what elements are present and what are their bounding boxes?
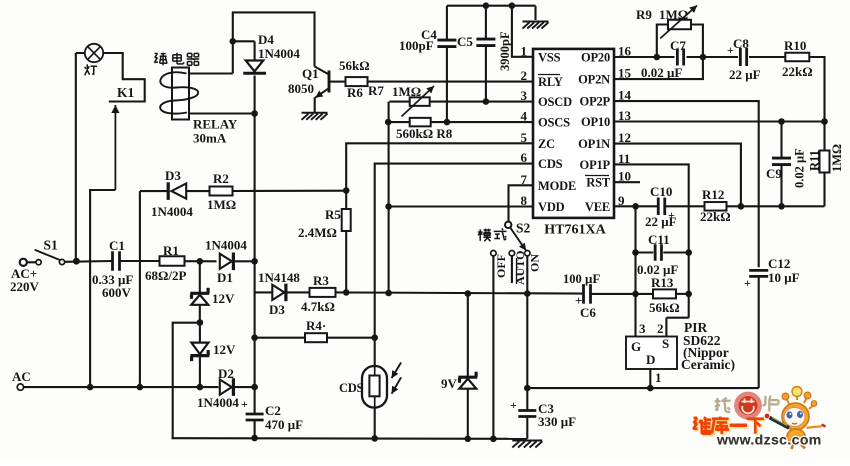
svg-text:12V: 12V: [213, 342, 236, 357]
svg-text:600V: 600V: [102, 285, 132, 300]
svg-text:C7: C7: [670, 38, 686, 53]
svg-text:0.02 μF: 0.02 μF: [637, 262, 678, 277]
wire AC neutral: [24, 384, 219, 391]
svg-text:2: 2: [657, 321, 664, 336]
svg-text:MODE: MODE: [538, 179, 576, 193]
svg-text:R1: R1: [163, 243, 179, 258]
diode D3zc 1N4004: [140, 168, 210, 219]
svg-text:OP1N: OP1N: [578, 137, 610, 151]
wire K1 arrow to AC neutral: [90, 190, 115, 387]
wire Q1 base to R6: [330, 81, 346, 83]
wire R13 right: [676, 291, 692, 298]
wire ON down to C3: [526, 294, 528, 410]
resistor R13 56k: [649, 275, 680, 315]
node C4 bottom on pin4: [444, 119, 451, 126]
node VDD/ON: [524, 290, 531, 297]
svg-text:R10: R10: [784, 38, 806, 53]
svg-text:+: +: [510, 398, 517, 412]
svg-text:1N4004: 1N4004: [258, 46, 300, 61]
svg-text:22kΩ: 22kΩ: [700, 209, 731, 224]
capacitor C3 330uF: [510, 398, 576, 439]
svg-text:S1: S1: [44, 238, 59, 253]
svg-text:1: 1: [655, 370, 662, 385]
svg-text:C8: C8: [733, 36, 749, 51]
ground bottom: [512, 441, 542, 448]
S2 contact OFF: [491, 251, 508, 439]
node C11 right: [685, 249, 692, 256]
svg-text:D3: D3: [269, 302, 285, 317]
svg-text:30mA: 30mA: [193, 131, 227, 146]
svg-text:ON: ON: [528, 254, 542, 272]
wire zener mid to bottom rail: [173, 323, 200, 439]
svg-text:HT761XA: HT761XA: [544, 223, 606, 238]
svg-text:330 μF: 330 μF: [538, 414, 576, 429]
wire VDD rail: [336, 292, 584, 293]
svg-text:OFF: OFF: [494, 254, 508, 278]
wire pin16 OP20: [614, 54, 660, 61]
resistor R8 560k: [388, 118, 533, 141]
capacitor C10 22uF: [645, 184, 677, 229]
svg-text:VDD: VDD: [538, 200, 565, 214]
svg-text:CDS: CDS: [339, 381, 363, 395]
svg-text:OP2N: OP2N: [578, 73, 610, 87]
wire lamp right to K1 contact: [103, 53, 145, 102]
node C5 bottom on pin3: [483, 98, 490, 105]
ground top-right: [523, 6, 549, 29]
svg-text:470 μF: 470 μF: [265, 417, 303, 432]
wire R2 to ZC node: [233, 190, 347, 192]
svg-text:0.02 μF: 0.02 μF: [793, 148, 807, 188]
wire D1-D2 rail: [254, 261, 256, 387]
capacitor C5 3900pF: [457, 6, 512, 102]
wire pin12 OP1N: [614, 144, 741, 207]
svg-text:R6: R6: [347, 85, 363, 100]
svg-text:8050: 8050: [288, 81, 314, 96]
svg-text:10 μF: 10 μF: [768, 270, 800, 285]
svg-text:R9: R9: [636, 7, 652, 22]
resistor R11 1M: [808, 122, 845, 207]
capacitor C7 0.02uF: [641, 38, 706, 80]
svg-text:0.02 μF: 0.02 μF: [641, 65, 682, 80]
capacitor C9 0.02uF: [766, 122, 807, 207]
wire pin11 OP1P: [614, 164, 689, 317]
svg-text:68Ω/2P: 68Ω/2P: [145, 268, 187, 283]
svg-text:D: D: [646, 352, 655, 367]
zener DZ1 12V: [190, 261, 235, 326]
wire relay bottom to rail: [189, 110, 258, 117]
resistor R1 68ohm: [145, 243, 187, 283]
wire PIR ground net: [524, 385, 759, 392]
svg-text:1MΩ: 1MΩ: [392, 84, 421, 99]
svg-text:2.4MΩ: 2.4MΩ: [298, 225, 337, 240]
svg-text:K1: K1: [117, 85, 135, 100]
node C5 top: [483, 2, 490, 9]
svg-text:S2: S2: [516, 221, 531, 236]
svg-text:www.dzsc.com: www.dzsc.com: [716, 432, 822, 448]
resistor R3 4.7k: [301, 273, 336, 314]
svg-text:R13: R13: [651, 275, 674, 290]
wire C11 left rail: [632, 206, 639, 336]
S2 contact ON: [525, 251, 542, 294]
wire bottom rail: [172, 435, 528, 442]
svg-text:RELAY: RELAY: [193, 117, 238, 132]
capacitor C11 0.02uF: [636, 232, 689, 277]
svg-text:C11: C11: [648, 232, 670, 247]
svg-text:3900pF: 3900pF: [498, 31, 512, 71]
svg-text:AC: AC: [12, 369, 31, 384]
svg-text:1N4148: 1N4148: [258, 270, 300, 285]
svg-text:ZC: ZC: [538, 137, 555, 151]
node VDD/R5: [343, 289, 350, 296]
node VDD/R7R8 rail: [385, 290, 392, 297]
wire R7R8 rail to VDD: [385, 203, 392, 293]
svg-text:OSCD: OSCD: [538, 95, 572, 109]
svg-text:D1: D1: [217, 270, 233, 285]
photoresistor CDS: [339, 363, 401, 408]
svg-text:G: G: [631, 339, 641, 354]
capacitor C6 100uF: [563, 271, 600, 320]
wire D3zc to AC neutral: [139, 191, 141, 387]
terminal AC neutral: [12, 369, 31, 390]
capacitor C1 0.33uF/600V: [92, 238, 133, 300]
wire R7/R8 left rail: [388, 102, 390, 207]
wire top-left rail: [233, 12, 315, 73]
wire pin7 MODE to S2: [509, 185, 534, 221]
svg-text:RLY: RLY: [538, 75, 563, 89]
resistor R6 56k: [339, 58, 370, 100]
zener DZ2 12V: [190, 323, 236, 391]
svg-text:C12: C12: [768, 256, 790, 271]
wire R1 to D1: [185, 258, 217, 265]
svg-text:D3: D3: [165, 168, 181, 183]
wire C6 to C11 rail: [591, 293, 653, 295]
wire CDS to bottom rail: [371, 408, 378, 442]
svg-text:3: 3: [521, 88, 528, 103]
resistor R4: [251, 318, 378, 342]
wire R12 right to C9/R11: [727, 203, 825, 210]
svg-text:R7: R7: [368, 83, 384, 98]
wire lamp left to S1 node: [76, 53, 85, 261]
diode D1 1N4004: [205, 238, 258, 286]
svg-text:56kΩ: 56kΩ: [339, 58, 370, 73]
node D4 top junction: [230, 38, 237, 45]
wire C10 to R12: [665, 205, 705, 207]
terminal AC+ and switch S1: [10, 238, 65, 295]
op-amp IC U1 HT761XA: [521, 43, 632, 237]
svg-text:R4·: R4·: [306, 318, 326, 333]
svg-text:Ceramic): Ceramic): [681, 357, 735, 372]
wire pin5 ZC: [346, 143, 533, 190]
svg-text:220V: 220V: [10, 279, 40, 294]
svg-text:S: S: [662, 336, 669, 351]
svg-text:C6: C6: [580, 305, 596, 320]
svg-text:D4: D4: [258, 32, 274, 47]
wire pin1 VSS: [512, 6, 533, 57]
svg-text:+: +: [744, 276, 751, 290]
wire pin6 CDS: [375, 164, 533, 366]
svg-text:1MΩ: 1MΩ: [830, 144, 844, 172]
relay contact K1 arrow: [111, 85, 134, 190]
potentiometer R9 1M: [636, 6, 703, 58]
svg-text:VEE: VEE: [585, 200, 610, 214]
svg-text:Q1: Q1: [302, 66, 319, 81]
svg-text:OSCS: OSCS: [538, 116, 570, 130]
lamp symbol (灯): [85, 44, 104, 76]
svg-text:56kΩ: 56kΩ: [649, 300, 680, 315]
switch S2 (模式): [478, 221, 531, 251]
node pin1 top: [509, 2, 516, 9]
svg-text:OP10: OP10: [581, 115, 610, 129]
node R8 left: [385, 119, 392, 126]
svg-text:OP2P: OP2P: [580, 95, 611, 109]
wire pin13 OP10: [614, 118, 828, 125]
svg-text:C10: C10: [650, 184, 672, 199]
svg-text:560kΩ R8: 560kΩ R8: [396, 126, 453, 141]
svg-text:22kΩ: 22kΩ: [782, 64, 813, 79]
pin10 RST stub: [614, 181, 640, 183]
potentiometer R7 1M: [389, 84, 533, 117]
svg-text:22 μF: 22 μF: [729, 67, 761, 82]
svg-text:1MΩ: 1MΩ: [207, 197, 236, 212]
svg-text:+: +: [241, 397, 248, 411]
svg-text:OP1P: OP1P: [580, 158, 611, 172]
wire pin15 OP2N: [614, 57, 703, 79]
svg-text:D2: D2: [218, 366, 234, 381]
resistor R10 22k: [782, 38, 813, 79]
resistor R2 1M: [207, 171, 236, 212]
wire pin8 VDD: [389, 205, 533, 207]
S2 contact AUTO: [509, 251, 527, 286]
capacitor C2 470uF: [246, 387, 304, 438]
svg-text:1N4004: 1N4004: [205, 238, 247, 253]
svg-text:12V: 12V: [212, 291, 235, 306]
transistor Q1 8050: [288, 66, 329, 112]
svg-text:1MΩ: 1MΩ: [659, 7, 688, 22]
relay coil (继电器 RELAY 30mA): [154, 53, 238, 146]
svg-text:RST: RST: [586, 176, 611, 190]
svg-text:R2: R2: [213, 171, 229, 186]
ground under Q1: [302, 113, 328, 120]
svg-text:100pF: 100pF: [399, 38, 434, 53]
svg-text:μF: μF: [585, 271, 600, 286]
svg-text:VSS: VSS: [538, 50, 561, 64]
svg-text:1: 1: [521, 43, 528, 58]
node VDD/9V: [465, 290, 472, 297]
wire R10 to pin13 net: [809, 57, 824, 122]
svg-text:1N4004: 1N4004: [151, 204, 193, 219]
wire S1 to C1: [65, 258, 113, 265]
capacitor C4 100pF: [399, 6, 456, 122]
svg-text:R5: R5: [325, 207, 341, 222]
wire D4 cathode rail down: [254, 76, 256, 262]
PIR sensor SD622: [626, 318, 735, 392]
zener D5 9V: [441, 294, 477, 439]
svg-text:C2: C2: [265, 403, 281, 418]
diode D4 1N4004: [233, 32, 301, 73]
svg-text:R11: R11: [808, 150, 822, 171]
svg-text:C9: C9: [766, 166, 782, 181]
diode D2 1N4004: [197, 366, 258, 411]
wire C1 to R1: [120, 260, 160, 262]
node C6/C11rail: [632, 291, 639, 298]
svg-text:+: +: [668, 208, 675, 222]
wire pin14 OP2P: [614, 101, 759, 267]
svg-text:9V: 9V: [441, 376, 458, 391]
watermark dzsc logo: [693, 387, 825, 450]
capacitor C8 22uF: [703, 36, 785, 82]
capacitor C12 10uF: [744, 256, 800, 388]
wire pin9 VEE: [614, 203, 658, 210]
top wire C4/C5: [447, 5, 536, 7]
diode D3 1N4148: [255, 270, 309, 317]
svg-text:4: 4: [521, 109, 528, 124]
svg-text:4.7kΩ: 4.7kΩ: [301, 299, 335, 314]
svg-text:R12: R12: [702, 187, 724, 202]
resistor R5 2.4M: [298, 191, 351, 293]
svg-text:C5: C5: [457, 34, 473, 49]
svg-text:CDS: CDS: [538, 157, 563, 171]
svg-text:1N4004: 1N4004: [197, 395, 239, 410]
svg-text:OP20: OP20: [581, 51, 610, 65]
wire R6 to IC pin2 RLY: [368, 82, 534, 98]
svg-text:R3: R3: [313, 273, 329, 288]
svg-text:3: 3: [639, 321, 646, 336]
wire relay top to D4 rail: [189, 72, 233, 74]
resistor R12 22k: [700, 187, 731, 224]
svg-text:2: 2: [521, 68, 528, 83]
svg-text:C1: C1: [109, 238, 125, 253]
node R5 top: [343, 187, 350, 194]
svg-text:100: 100: [563, 272, 582, 286]
